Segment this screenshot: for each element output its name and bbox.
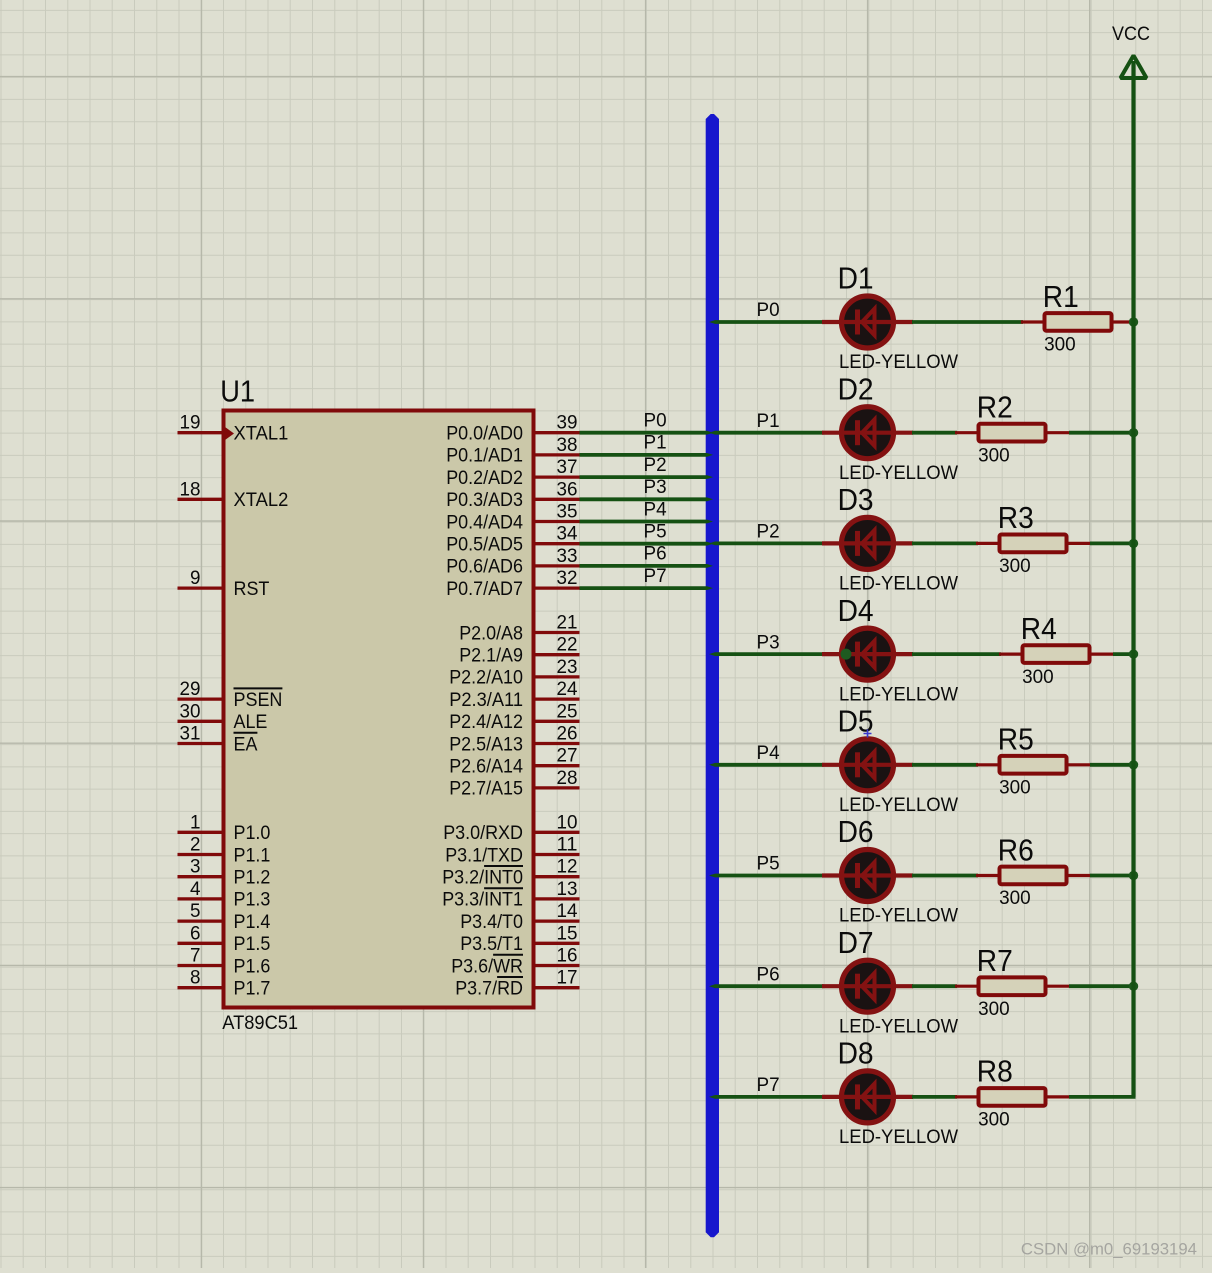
pin number 6 (190, 922, 201, 944)
svg-text:P0: P0 (757, 299, 780, 321)
pin number 2 (190, 834, 201, 856)
svg-text:35: 35 (557, 501, 578, 523)
svg-text:P0.6/AD6: P0.6/AD6 (446, 556, 523, 578)
junction node on VCC rail (row D6) (1129, 871, 1138, 880)
label U1 (220, 375, 255, 409)
value label LED-YELLOW (839, 905, 959, 927)
label R5 (998, 723, 1034, 757)
svg-text:3: 3 (190, 856, 201, 878)
svg-text:26: 26 (557, 723, 578, 745)
pin 36 (P0.3/AD3) wire, right side of U1 (536, 498, 580, 501)
svg-text:300: 300 (999, 777, 1031, 799)
resistor R4 (999, 645, 1113, 663)
svg-text:CSDN @m0_69193194: CSDN @m0_69193194 (1021, 1240, 1197, 1259)
wire P0.7 pin to bus (580, 586, 714, 590)
pin name XTAL2 (234, 489, 289, 511)
svg-text:39: 39 (557, 412, 578, 434)
label D8 (838, 1037, 874, 1071)
pin number 34 (557, 523, 578, 545)
pin number 19 (180, 412, 201, 434)
svg-text:R5: R5 (998, 723, 1034, 757)
label D3 (838, 483, 874, 517)
label D4 (838, 594, 874, 628)
wire LED D2 to resistor R2 (912, 431, 957, 435)
bus P0..P7 (vertical blue bus) (706, 114, 719, 1237)
pin 14 (P3.4/T0) wire, right side of U1 (536, 919, 580, 922)
value label LED-YELLOW (839, 573, 959, 595)
svg-text:P2.5/A13: P2.5/A13 (449, 733, 523, 755)
wire P0.6 pin to bus (580, 564, 714, 568)
pin 32 (P0.7/AD7) wire, right side of U1 (536, 586, 580, 589)
svg-text:LED-YELLOW: LED-YELLOW (839, 794, 959, 816)
svg-text:LED-YELLOW: LED-YELLOW (839, 462, 959, 484)
pin 6 (P1.5) wire, left side of U1 (178, 942, 222, 945)
pin number 25 (557, 700, 578, 722)
pin name P0.4/AD4 (446, 511, 523, 533)
label D5 (838, 705, 874, 739)
svg-text:D8: D8 (838, 1037, 874, 1071)
wire P0.0 pin to bus (580, 431, 714, 435)
svg-text:9: 9 (190, 567, 201, 589)
pin number 24 (557, 678, 578, 700)
pin name P2.4/A12 (449, 711, 523, 733)
svg-text:P1.3: P1.3 (234, 889, 271, 911)
LED D7 (LED-YELLOW) (822, 960, 913, 1012)
svg-text:U1: U1 (220, 375, 255, 409)
svg-text:28: 28 (557, 767, 578, 789)
svg-text:18: 18 (180, 478, 201, 500)
pin 5 (P1.4) wire, left side of U1 (178, 919, 222, 922)
svg-text:D6: D6 (838, 815, 874, 849)
svg-text:XTAL2: XTAL2 (234, 489, 289, 511)
pin number 37 (557, 456, 578, 478)
pin 26 (P2.5/A13) wire, right side of U1 (536, 742, 580, 745)
pin 13 (P3.3/INT1) wire, right side of U1 (536, 897, 580, 900)
pin name ALE (234, 711, 268, 733)
pin name P2.1/A9 (459, 645, 523, 667)
value label 300 (999, 777, 1031, 799)
pin 16 (P3.6/WR) wire, right side of U1 (536, 964, 580, 967)
pin 12 (P3.2/INT0) wire, right side of U1 (536, 875, 580, 878)
pin number 32 (557, 567, 578, 589)
pin number 12 (557, 856, 578, 878)
net label P6 (chip side) (644, 543, 667, 565)
net label P7 (chip side) (644, 565, 667, 587)
svg-text:D1: D1 (838, 262, 874, 296)
pin name P2.3/A11 (449, 689, 523, 711)
pin number 30 (180, 700, 201, 722)
pin 29 (PSEN) wire, left side of U1 (178, 697, 222, 700)
pin number 36 (557, 478, 578, 500)
pin 17 (P3.7/RD) wire, right side of U1 (536, 986, 580, 989)
svg-text:4: 4 (190, 878, 201, 900)
wire bus to LED D8 (709, 1095, 824, 1099)
pin number 38 (557, 434, 578, 456)
pin 25 (P2.4/A12) wire, right side of U1 (536, 720, 580, 723)
net label P4 (chip side) (644, 498, 667, 520)
pin name P3.6/WR (451, 955, 523, 978)
svg-text:P2.1/A9: P2.1/A9 (459, 645, 523, 667)
svg-text:37: 37 (557, 456, 578, 478)
junction node on VCC rail (row D1) (1129, 317, 1138, 326)
svg-text:P0.7/AD7: P0.7/AD7 (446, 578, 523, 600)
junction node at D4 anode (841, 649, 852, 660)
LED D6 (LED-YELLOW) (822, 850, 913, 902)
svg-text:300: 300 (1044, 334, 1076, 356)
wire P0.5 pin to bus (580, 542, 714, 546)
svg-text:RST: RST (234, 578, 270, 600)
svg-text:LED-YELLOW: LED-YELLOW (839, 1015, 959, 1037)
pin name P1.1 (234, 844, 271, 866)
svg-text:8: 8 (190, 967, 201, 989)
wire bus to LED D3 (709, 542, 824, 546)
pin number 14 (557, 900, 578, 922)
value label LED-YELLOW (839, 351, 959, 373)
svg-text:R6: R6 (998, 833, 1034, 867)
wire resistor R6 to VCC rail (1090, 874, 1136, 878)
svg-text:P5: P5 (757, 853, 780, 875)
pin 31 (EA) wire, left side of U1 (178, 742, 222, 745)
net label P0 (row D1) (757, 299, 780, 321)
svg-text:PSEN: PSEN (234, 689, 283, 711)
svg-text:300: 300 (999, 887, 1031, 909)
svg-text:12: 12 (557, 856, 578, 878)
svg-text:13: 13 (557, 878, 578, 900)
svg-text:R7: R7 (977, 944, 1013, 978)
pin number 5 (190, 900, 201, 922)
net label P1 (chip side) (644, 432, 667, 454)
svg-text:10: 10 (557, 811, 578, 833)
svg-text:31: 31 (180, 723, 201, 745)
svg-text:R3: R3 (998, 501, 1034, 535)
svg-text:LED-YELLOW: LED-YELLOW (839, 573, 959, 595)
value label 300 (978, 998, 1010, 1020)
svg-text:2: 2 (190, 834, 201, 856)
power symbol VCC arrow (1121, 56, 1147, 79)
pin name P3.3/INT1 (442, 888, 523, 911)
pin name P1.5 (234, 933, 271, 955)
svg-text:1: 1 (190, 811, 201, 833)
value label 300 (978, 1109, 1010, 1131)
label D2 (838, 372, 874, 406)
svg-text:P2: P2 (644, 454, 667, 476)
svg-text:19: 19 (180, 412, 201, 434)
svg-text:P3.3/INT1: P3.3/INT1 (442, 889, 523, 911)
pin name P2.2/A10 (449, 667, 523, 689)
label R3 (998, 501, 1034, 535)
pin number 13 (557, 878, 578, 900)
wire LED D5 to resistor R5 (912, 763, 978, 767)
svg-text:P3.4/T0: P3.4/T0 (460, 911, 523, 933)
net label P0 (chip side) (644, 410, 667, 432)
pin name XTAL1 (234, 423, 289, 445)
pin name P3.7/RD (455, 977, 523, 1000)
svg-text:38: 38 (557, 434, 578, 456)
svg-text:21: 21 (557, 612, 578, 634)
svg-text:R2: R2 (977, 391, 1013, 425)
LED D2 (LED-YELLOW) (822, 407, 913, 459)
pin name P2.7/A15 (449, 778, 523, 800)
svg-text:P2.0/A8: P2.0/A8 (459, 622, 523, 644)
label R8 (977, 1055, 1013, 1089)
pin 39 (P0.0/AD0) wire, right side of U1 (536, 431, 580, 434)
pin 2 (P1.1) wire, left side of U1 (178, 853, 222, 856)
pin name PSEN (234, 688, 283, 711)
wire resistor R8 to VCC rail (1069, 1095, 1136, 1099)
svg-text:300: 300 (999, 555, 1031, 577)
resistor R5 (976, 756, 1090, 774)
pin 15 (P3.5/T1) wire, right side of U1 (536, 942, 580, 945)
pin number 15 (557, 922, 578, 944)
pin name P0.2/AD2 (446, 467, 523, 489)
pin number 28 (557, 767, 578, 789)
value label LED-YELLOW (839, 794, 959, 816)
pin number 17 (557, 967, 578, 989)
resistor R7 (955, 977, 1069, 995)
svg-text:P2.6/A14: P2.6/A14 (449, 756, 523, 778)
pin 28 (P2.7/A15) wire, right side of U1 (536, 786, 580, 789)
wire P0.1 pin to bus (580, 453, 714, 457)
value label 300 (978, 444, 1010, 466)
pin name P0.0/AD0 (446, 423, 523, 445)
pin number 11 (557, 834, 578, 856)
wire P0.2 pin to bus (580, 475, 714, 479)
junction node on VCC rail (row D2) (1129, 428, 1138, 437)
LED D4 (LED-YELLOW) (822, 628, 913, 680)
svg-text:30: 30 (180, 700, 201, 722)
svg-text:D7: D7 (838, 926, 874, 960)
svg-text:300: 300 (1022, 666, 1054, 688)
pin name P2.6/A14 (449, 756, 523, 778)
pin 4 (P1.3) wire, left side of U1 (178, 897, 222, 900)
junction node on VCC rail (row D7) (1129, 982, 1138, 991)
wire LED D7 to resistor R7 (912, 984, 957, 988)
pin 33 (P0.6/AD6) wire, right side of U1 (536, 564, 580, 567)
pin name P0.5/AD5 (446, 534, 523, 556)
svg-text:P4: P4 (644, 498, 667, 520)
pin 9 (RST) wire, left side of U1 (178, 586, 222, 589)
pin name P1.0 (234, 822, 271, 844)
pin 18 (XTAL2) wire, left side of U1 (178, 498, 222, 501)
resistor R8 (955, 1088, 1069, 1106)
wire LED D6 to resistor R6 (912, 874, 978, 878)
junction node on VCC rail (row D3) (1129, 539, 1138, 548)
pin number 9 (190, 567, 201, 589)
pin name P2.0/A8 (459, 622, 523, 644)
pin number 18 (180, 478, 201, 500)
net label VCC (1112, 23, 1150, 45)
svg-text:VCC: VCC (1112, 23, 1150, 45)
pin number 10 (557, 811, 578, 833)
wire resistor R4 to VCC rail (1113, 652, 1136, 656)
pin number 31 (180, 723, 201, 745)
svg-text:P1.2: P1.2 (234, 867, 271, 889)
net label P2 (chip side) (644, 454, 667, 476)
svg-text:P3.0/RXD: P3.0/RXD (443, 822, 523, 844)
net label P3 (row D4) (757, 631, 780, 653)
pin number 33 (557, 545, 578, 567)
svg-text:D2: D2 (838, 372, 874, 406)
svg-text:24: 24 (557, 678, 578, 700)
pin number 26 (557, 723, 578, 745)
pin 19 (XTAL1) wire, left side of U1 (178, 431, 222, 434)
pin 3 (P1.2) wire, left side of U1 (178, 875, 222, 878)
XTAL1 clock input marker (224, 426, 234, 440)
svg-text:P3.1/TXD: P3.1/TXD (445, 844, 523, 866)
svg-text:P6: P6 (757, 963, 780, 985)
wire bus to LED D1 (709, 320, 824, 324)
svg-text:36: 36 (557, 478, 578, 500)
wire P0.4 pin to bus (580, 520, 714, 524)
wire resistor R5 to VCC rail (1090, 763, 1136, 767)
pin number 29 (180, 678, 201, 700)
svg-text:P3.6/WR: P3.6/WR (451, 955, 523, 977)
svg-text:16: 16 (557, 945, 578, 967)
wire resistor R3 to VCC rail (1090, 542, 1136, 546)
svg-text:P3.2/INT0: P3.2/INT0 (442, 867, 523, 889)
resistor R3 (976, 535, 1090, 553)
pin number 8 (190, 967, 201, 989)
svg-text:AT89C51: AT89C51 (222, 1012, 298, 1034)
wire P0.3 pin to bus (580, 497, 714, 501)
net label P2 (row D3) (757, 521, 780, 543)
svg-text:6: 6 (190, 922, 201, 944)
pin name P1.4 (234, 911, 271, 933)
net label P1 (row D2) (757, 410, 780, 432)
svg-text:P0.3/AD3: P0.3/AD3 (446, 489, 523, 511)
svg-text:P3.5/T1: P3.5/T1 (460, 933, 523, 955)
pin name P0.6/AD6 (446, 556, 523, 578)
svg-text:ALE: ALE (234, 711, 268, 733)
resistor R2 (955, 424, 1069, 442)
net label P7 (row D8) (757, 1074, 780, 1096)
pin 10 (P3.0/RXD) wire, right side of U1 (536, 831, 580, 834)
svg-text:7: 7 (190, 945, 201, 967)
pin 30 (ALE) wire, left side of U1 (178, 720, 222, 723)
svg-text:R4: R4 (1021, 612, 1057, 646)
svg-text:P1.4: P1.4 (234, 911, 271, 933)
watermark text (1021, 1240, 1197, 1259)
LED D3 (LED-YELLOW) (822, 517, 913, 569)
pin name P3.1/TXD (445, 844, 523, 866)
pin name EA (234, 733, 258, 756)
wire resistor R7 to VCC rail (1069, 984, 1136, 988)
svg-text:P1.7: P1.7 (234, 978, 271, 1000)
svg-text:23: 23 (557, 656, 578, 678)
pin 21 (P2.0/A8) wire, right side of U1 (536, 631, 580, 634)
svg-text:P3.7/RD: P3.7/RD (455, 978, 523, 1000)
svg-text:P2.3/A11: P2.3/A11 (449, 689, 523, 711)
svg-text:300: 300 (978, 444, 1010, 466)
svg-text:P0.5/AD5: P0.5/AD5 (446, 534, 523, 556)
pin name P0.7/AD7 (446, 578, 523, 600)
svg-text:P0.4/AD4: P0.4/AD4 (446, 511, 523, 533)
net label P4 (row D5) (757, 742, 780, 764)
svg-text:11: 11 (557, 834, 578, 856)
svg-text:XTAL1: XTAL1 (234, 423, 289, 445)
pin 38 (P0.1/AD1) wire, right side of U1 (536, 453, 580, 456)
svg-text:5: 5 (190, 900, 201, 922)
wire LED D8 to resistor R8 (912, 1095, 957, 1099)
pin number 22 (557, 634, 578, 656)
label D1 (838, 262, 874, 296)
wire bus to LED D5 (709, 763, 824, 767)
svg-text:P3: P3 (757, 631, 780, 653)
svg-text:P2.2/A10: P2.2/A10 (449, 667, 523, 689)
wire LED D3 to resistor R3 (912, 542, 978, 546)
pin number 35 (557, 501, 578, 523)
svg-text:17: 17 (557, 967, 578, 989)
pin 22 (P2.1/A9) wire, right side of U1 (536, 653, 580, 656)
pin name P1.3 (234, 889, 271, 911)
svg-text:D4: D4 (838, 594, 874, 628)
pin name P0.1/AD1 (446, 445, 523, 467)
svg-text:27: 27 (557, 745, 578, 767)
wire VCC rail (vertical) (1131, 61, 1135, 1097)
pin name RST (234, 578, 270, 600)
net label P3 (chip side) (644, 476, 667, 498)
node marker above D5 (864, 730, 872, 738)
svg-text:P1.0: P1.0 (234, 822, 271, 844)
pin 8 (P1.7) wire, left side of U1 (178, 986, 222, 989)
svg-text:P0: P0 (644, 410, 667, 432)
svg-text:P0.1/AD1: P0.1/AD1 (446, 445, 523, 467)
svg-text:P4: P4 (757, 742, 780, 764)
svg-text:P0.0/AD0: P0.0/AD0 (446, 423, 523, 445)
svg-text:P1.5: P1.5 (234, 933, 271, 955)
value label LED-YELLOW (839, 1015, 959, 1037)
svg-text:P1.6: P1.6 (234, 955, 271, 977)
wire bus to LED D2 (709, 431, 824, 435)
svg-text:EA: EA (234, 733, 258, 755)
pin 27 (P2.6/A14) wire, right side of U1 (536, 764, 580, 767)
pin number 1 (190, 811, 201, 833)
pin number 4 (190, 878, 201, 900)
svg-text:22: 22 (557, 634, 578, 656)
svg-text:P1: P1 (757, 410, 780, 432)
LED D5 (LED-YELLOW) (822, 739, 913, 791)
pin 34 (P0.5/AD5) wire, right side of U1 (536, 542, 580, 545)
net label P5 (chip side) (644, 521, 667, 543)
pin number 39 (557, 412, 578, 434)
svg-text:R1: R1 (1043, 280, 1079, 314)
svg-text:P2.7/A15: P2.7/A15 (449, 778, 523, 800)
value label LED-YELLOW (839, 683, 959, 705)
wire LED D4 to resistor R4 (912, 652, 1001, 656)
svg-text:15: 15 (557, 922, 578, 944)
pin number 23 (557, 656, 578, 678)
svg-text:LED-YELLOW: LED-YELLOW (839, 351, 959, 373)
pin number 21 (557, 612, 578, 634)
wire resistor R2 to VCC rail (1069, 431, 1136, 435)
junction node on VCC rail (row D4) (1129, 649, 1138, 658)
wire bus to LED D7 (709, 984, 824, 988)
pin number 3 (190, 856, 201, 878)
LED D8 (LED-YELLOW) (822, 1071, 913, 1123)
pin 7 (P1.6) wire, left side of U1 (178, 964, 222, 967)
pin 11 (P3.1/TXD) wire, right side of U1 (536, 853, 580, 856)
svg-text:P2: P2 (757, 521, 780, 543)
svg-text:29: 29 (180, 678, 201, 700)
pin 35 (P0.4/AD4) wire, right side of U1 (536, 520, 580, 523)
svg-text:34: 34 (557, 523, 578, 545)
wire LED D1 to resistor R1 (912, 320, 1023, 324)
pin number 27 (557, 745, 578, 767)
label D6 (838, 815, 874, 849)
svg-text:P1: P1 (644, 432, 667, 454)
pin name P0.3/AD3 (446, 489, 523, 511)
pin name P3.0/RXD (443, 822, 523, 844)
